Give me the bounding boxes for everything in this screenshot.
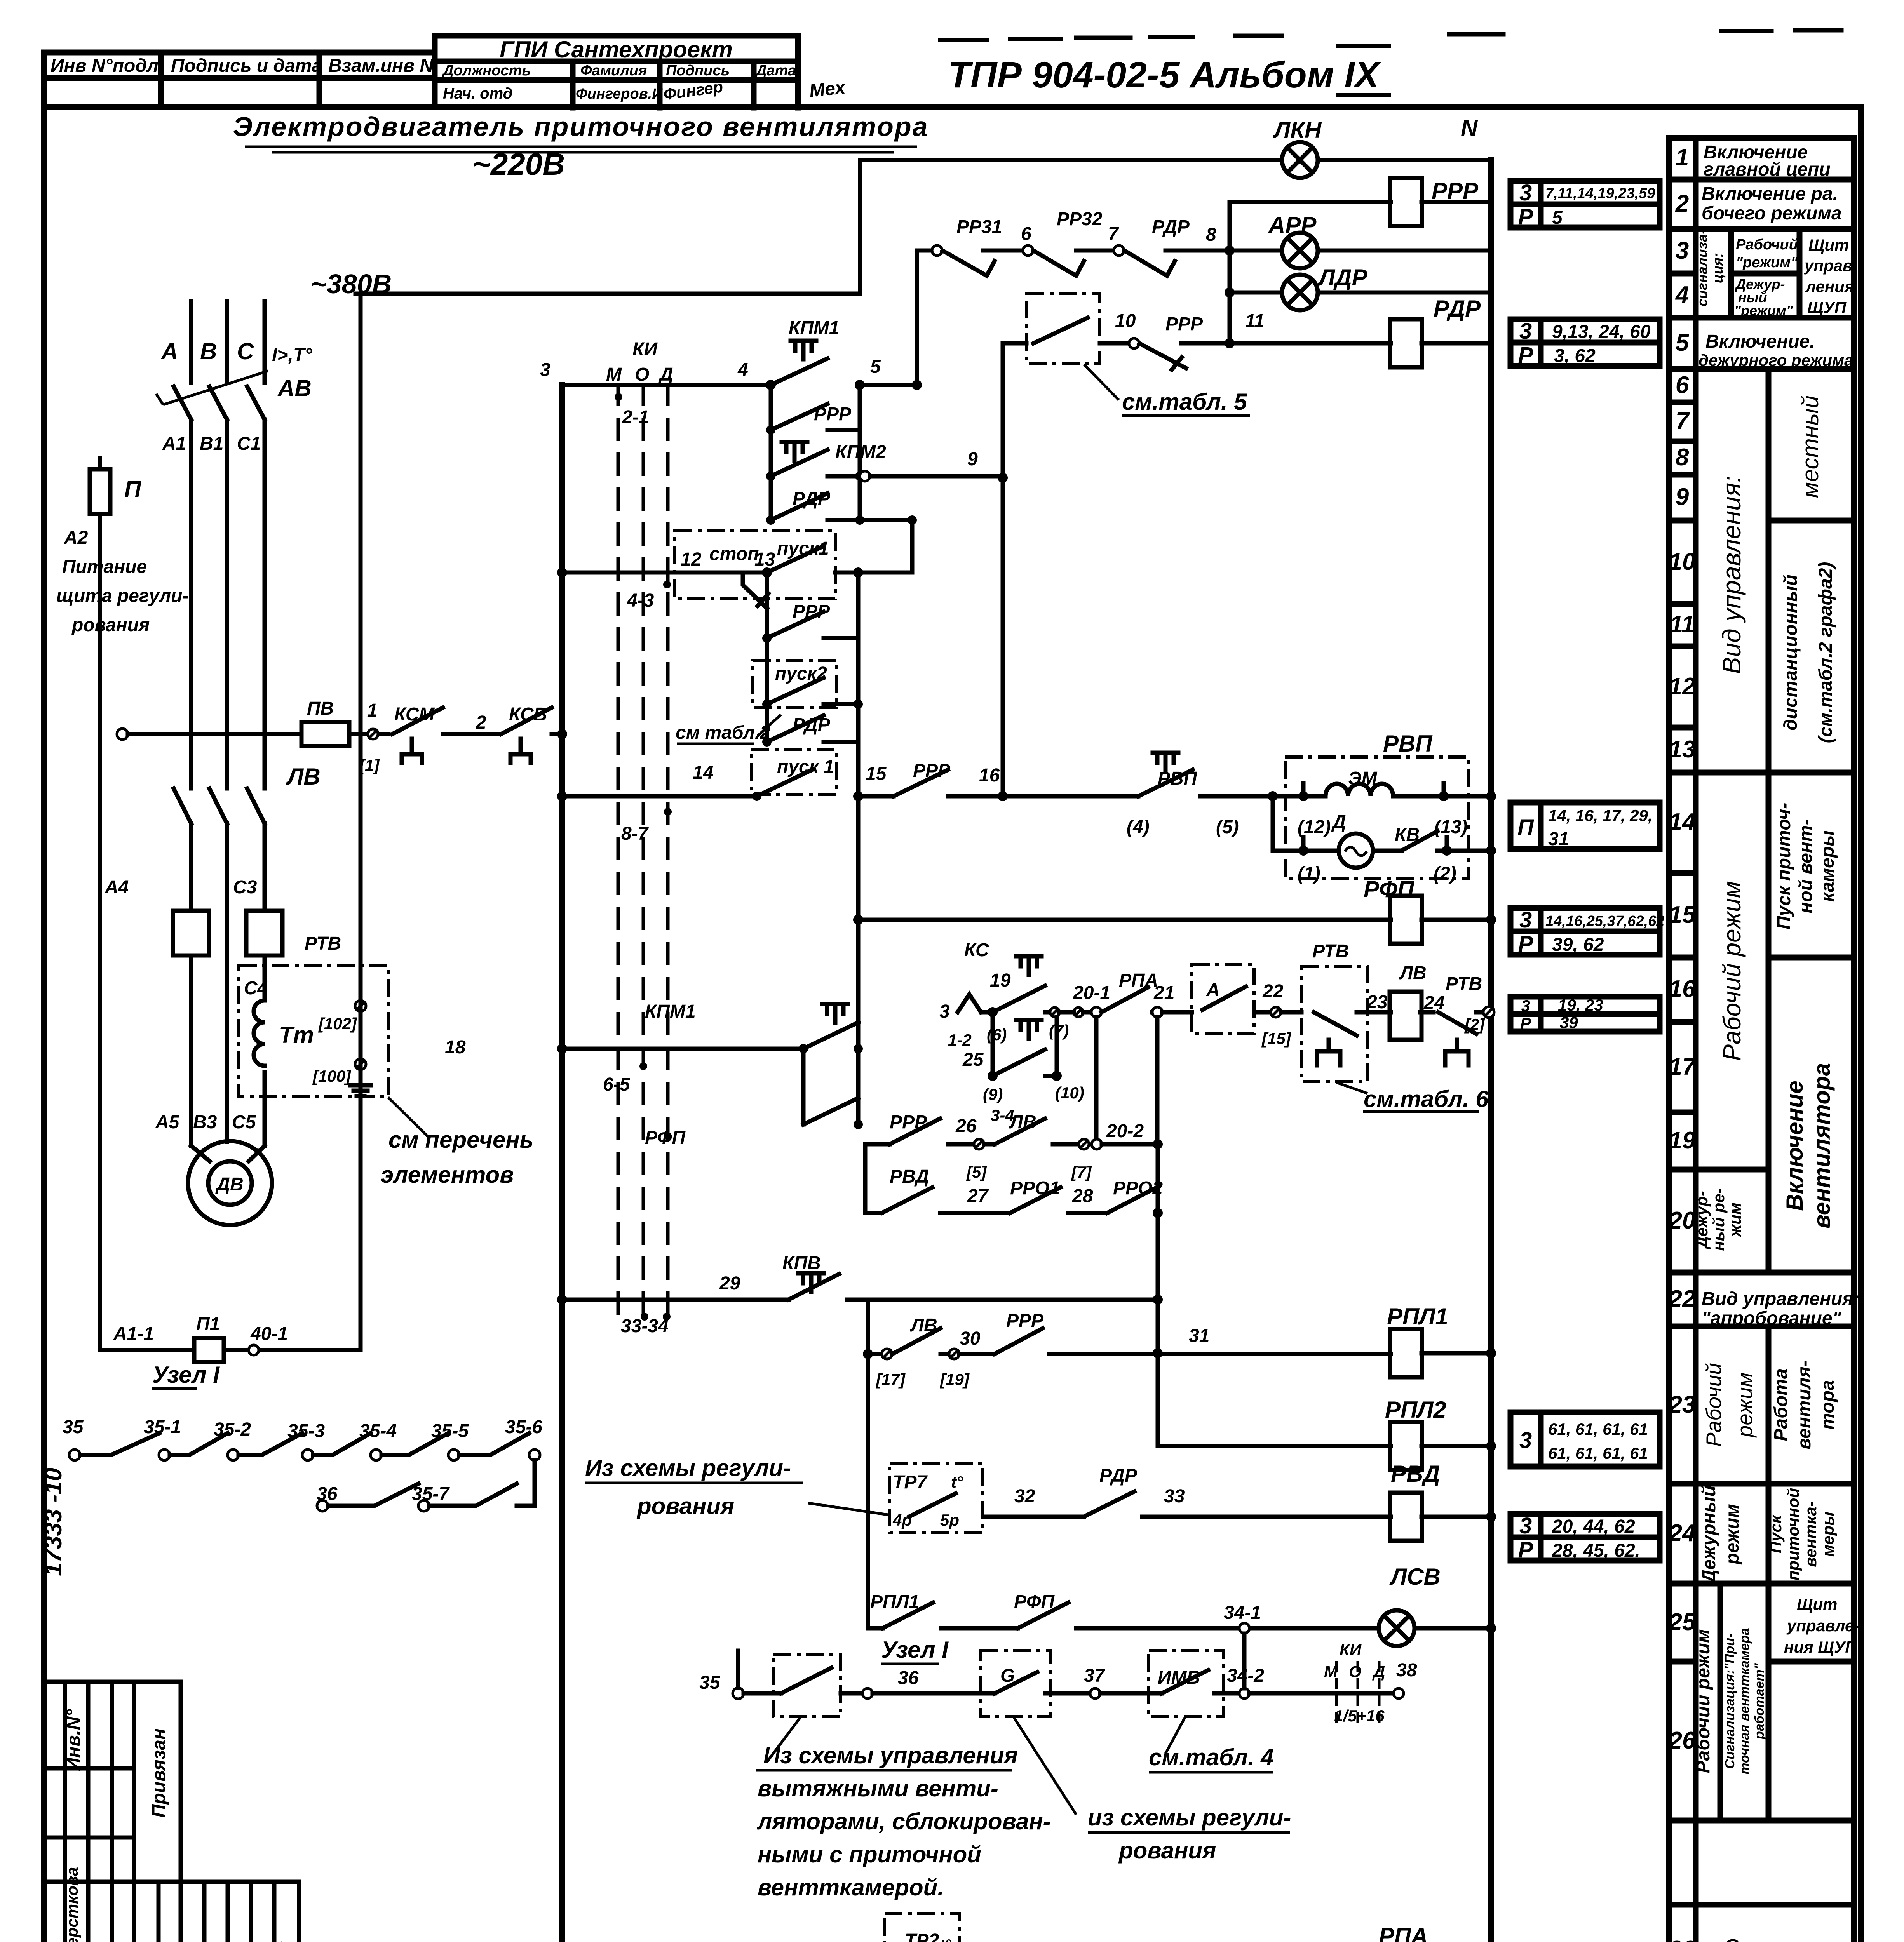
svg-text:3: 3: [1521, 997, 1530, 1015]
svg-text:38: 38: [1396, 1660, 1417, 1681]
svg-text:Р: Р: [1520, 1014, 1531, 1032]
svg-text:ния ЩУП: ния ЩУП: [1784, 1638, 1857, 1656]
svg-text:3, 62: 3, 62: [1554, 346, 1596, 366]
svg-text:С1: С1: [237, 433, 261, 454]
svg-text:РТВ: РТВ: [1446, 974, 1482, 994]
svg-text:работает": работает": [1752, 1663, 1767, 1740]
svg-text:[5]: [5]: [966, 1163, 987, 1181]
svg-text:t°: t°: [951, 1473, 963, 1491]
svg-text:4-3: 4-3: [627, 590, 654, 611]
svg-text:РПЛ1: РПЛ1: [1387, 1303, 1448, 1329]
svg-text:см перечень: см перечень: [388, 1127, 533, 1153]
svg-text:рования: рования: [1118, 1838, 1216, 1864]
svg-text:Вид управления:: Вид управления:: [1717, 475, 1746, 674]
svg-text:РРО1: РРО1: [1010, 1178, 1060, 1199]
svg-text:ЛСВ: ЛСВ: [1389, 1564, 1441, 1590]
svg-text:Должность: Должность: [442, 63, 531, 79]
svg-text:А4: А4: [105, 877, 129, 898]
svg-text:ИМВ: ИМВ: [1158, 1667, 1200, 1688]
svg-text:А1-1: А1-1: [113, 1324, 154, 1344]
svg-text:[2]: [2]: [1464, 1015, 1485, 1034]
svg-text:5: 5: [1552, 207, 1563, 228]
svg-text:(6): (6): [987, 1025, 1007, 1044]
svg-text:РРР: РРР: [1432, 178, 1479, 204]
svg-text:П: П: [1517, 815, 1534, 840]
svg-text:РРО2: РРО2: [1113, 1178, 1163, 1199]
svg-text:местный: местный: [1797, 395, 1823, 498]
svg-text:31: 31: [1189, 1326, 1209, 1346]
svg-text:А: А: [1206, 980, 1220, 1001]
svg-text:А2: А2: [64, 527, 88, 548]
svg-text:РДР: РДР: [1434, 296, 1481, 322]
svg-text:Д: Д: [1372, 1662, 1385, 1681]
svg-text:элементов: элементов: [381, 1162, 514, 1188]
svg-text:14: 14: [693, 762, 713, 783]
svg-text:см табл.2: см табл.2: [676, 722, 770, 743]
svg-text:РРР: РРР: [793, 601, 830, 622]
svg-text:РРР: РРР: [890, 1112, 927, 1133]
svg-text:А1: А1: [162, 433, 186, 454]
svg-text:РДР: РДР: [793, 715, 831, 735]
svg-text:4р: 4р: [892, 1511, 912, 1529]
svg-text:3: 3: [1519, 1513, 1532, 1538]
svg-text:5р: 5р: [940, 1511, 959, 1529]
svg-text:ПВ: ПВ: [307, 698, 334, 719]
svg-text:14,16,25,37,62,62: 14,16,25,37,62,62: [1545, 913, 1664, 929]
svg-text:12: 12: [1669, 673, 1696, 700]
svg-text:24: 24: [1423, 993, 1444, 1013]
svg-text:25: 25: [1669, 1609, 1696, 1636]
svg-text:сигнализа-: сигнализа-: [1694, 230, 1710, 306]
svg-text:~220В: ~220В: [472, 147, 565, 181]
svg-text:17: 17: [1669, 1053, 1697, 1080]
svg-text:(5): (5): [1216, 817, 1239, 837]
svg-text:А: А: [160, 338, 178, 364]
svg-text:О: О: [1349, 1662, 1362, 1681]
svg-text:Дежурный: Дежурный: [1699, 1485, 1719, 1585]
svg-text:Рабочий: Рабочий: [1702, 1363, 1726, 1447]
svg-text:дистанционный: дистанционный: [1780, 574, 1801, 731]
svg-text:КПМ1: КПМ1: [645, 1001, 696, 1022]
svg-text:ГПИ Сантехпроект: ГПИ Сантехпроект: [500, 37, 733, 63]
svg-text:3: 3: [1519, 318, 1532, 344]
svg-text:(7): (7): [1049, 1021, 1069, 1040]
svg-text:8-7: 8-7: [621, 823, 649, 844]
svg-text:РРР: РРР: [814, 404, 852, 425]
svg-text:5: 5: [870, 357, 881, 377]
svg-text:30: 30: [960, 1328, 981, 1349]
svg-text:С3: С3: [233, 877, 257, 898]
svg-text:1: 1: [367, 700, 378, 721]
svg-text:24: 24: [1669, 1520, 1696, 1547]
svg-text:РДР: РДР: [1099, 1465, 1138, 1486]
svg-text:[102]: [102]: [318, 1015, 357, 1033]
svg-text:пуск 1: пуск 1: [777, 757, 834, 777]
svg-text:35-6: 35-6: [505, 1417, 542, 1437]
svg-text:Н.контр. Хоперсткова: Н.контр. Хоперсткова: [63, 1867, 81, 1942]
svg-text:М: М: [1324, 1662, 1338, 1681]
svg-text:3: 3: [1519, 907, 1532, 933]
svg-text:31: 31: [1548, 829, 1569, 849]
svg-text:РВД: РВД: [1391, 1461, 1440, 1487]
svg-text:РРР: РРР: [1006, 1310, 1044, 1331]
svg-text:6: 6: [1021, 224, 1031, 244]
svg-text:Электродвигатель приточного: Электродвигатель приточного вентилятора: [233, 111, 928, 142]
svg-text:ДВ: ДВ: [215, 1174, 243, 1195]
svg-text:(13): (13): [1434, 817, 1467, 837]
svg-text:t°: t°: [939, 1936, 952, 1942]
svg-text:8: 8: [1206, 224, 1216, 245]
svg-text:4: 4: [737, 360, 748, 380]
svg-text:23: 23: [1366, 992, 1388, 1013]
svg-text:С5: С5: [232, 1112, 256, 1133]
svg-text:точная вентткамера: точная вентткамера: [1737, 1628, 1752, 1775]
svg-text:"апробование": "апробование": [1702, 1308, 1842, 1329]
svg-text:10: 10: [1669, 548, 1696, 575]
svg-text:Р: Р: [1518, 931, 1533, 957]
svg-text:15: 15: [866, 764, 887, 784]
svg-text:Взам.инв N°: Взам.инв N°: [328, 56, 441, 76]
svg-text:7: 7: [1108, 224, 1119, 244]
svg-text:3: 3: [1676, 237, 1689, 264]
svg-text:[100]: [100]: [312, 1067, 352, 1085]
svg-text:РПА: РПА: [1119, 970, 1158, 991]
svg-text:РДР: РДР: [793, 489, 831, 509]
svg-text:3: 3: [540, 360, 550, 380]
svg-text:ЛКН: ЛКН: [1273, 117, 1322, 143]
svg-text:В3: В3: [193, 1112, 217, 1133]
svg-text:(4): (4): [1127, 817, 1150, 837]
svg-text:режим: режим: [1722, 1504, 1743, 1565]
svg-text:7: 7: [1676, 408, 1690, 435]
svg-text:37: 37: [1084, 1665, 1106, 1686]
svg-text:Вид управления:: Вид управления:: [1702, 1289, 1860, 1309]
svg-text:11: 11: [1245, 311, 1265, 331]
svg-text:Рабочий режим: Рабочий режим: [1693, 1629, 1714, 1773]
svg-text:23: 23: [1669, 1391, 1696, 1418]
svg-text:ный ре-: ный ре-: [1709, 1188, 1728, 1251]
svg-text:"режим": "режим": [1736, 254, 1798, 271]
svg-text:ЛВ: ЛВ: [1009, 1112, 1036, 1133]
svg-text:РВП: РВП: [1383, 731, 1433, 757]
svg-text:Подпись: Подпись: [666, 63, 730, 79]
svg-text:ЛВ: ЛВ: [910, 1315, 937, 1336]
svg-text:Фингеров.И: Фингеров.И: [576, 86, 663, 102]
svg-text:27: 27: [967, 1186, 989, 1206]
svg-text:РФП: РФП: [645, 1128, 686, 1148]
svg-text:КПВ: КПВ: [782, 1253, 821, 1274]
svg-text:Мех: Мех: [808, 77, 847, 101]
svg-text:19: 19: [1669, 1127, 1696, 1154]
svg-text:3: 3: [1519, 1428, 1532, 1453]
svg-text:8: 8: [1676, 444, 1689, 471]
svg-text:12: 12: [681, 549, 702, 570]
svg-text:Включение ра.: Включение ра.: [1702, 184, 1838, 204]
svg-text:вытяжными венти-: вытяжными венти-: [758, 1775, 998, 1801]
svg-text:(10): (10): [1055, 1084, 1084, 1102]
svg-text:АРР: АРР: [1268, 212, 1317, 238]
svg-text:рования: рования: [71, 615, 150, 635]
svg-text:ными с приточной: ными с приточной: [758, 1841, 981, 1867]
svg-text:35: 35: [63, 1417, 84, 1437]
svg-text:16: 16: [1669, 976, 1696, 1002]
svg-text:КПМ2: КПМ2: [835, 442, 886, 463]
svg-text:щита регули-: щита регули-: [56, 586, 188, 606]
svg-text:"режим": "режим": [1734, 303, 1793, 318]
svg-text:Р: Р: [1518, 1537, 1533, 1563]
svg-text:15: 15: [1669, 901, 1696, 928]
svg-text:Р: Р: [1518, 204, 1533, 230]
svg-text:1-2: 1-2: [948, 1031, 972, 1049]
svg-text:14, 16, 17, 29,: 14, 16, 17, 29,: [1548, 806, 1653, 825]
svg-text:Р: Р: [1518, 343, 1533, 368]
svg-text:Д: Д: [1331, 812, 1346, 832]
svg-text:20, 44, 62: 20, 44, 62: [1552, 1516, 1635, 1537]
svg-text:вентткамерой.: вентткамерой.: [758, 1874, 944, 1900]
svg-text:35-5: 35-5: [431, 1421, 469, 1441]
svg-text:20-1: 20-1: [1073, 983, 1110, 1003]
svg-text:34-1: 34-1: [1224, 1603, 1261, 1623]
svg-text:жим: жим: [1726, 1202, 1744, 1237]
svg-text:18: 18: [445, 1037, 466, 1058]
svg-text:Питание: Питание: [62, 557, 147, 577]
svg-text:П: П: [124, 476, 142, 502]
svg-text:Узел I: Узел I: [152, 1362, 220, 1388]
svg-text:рования: рования: [636, 1493, 734, 1519]
svg-text:РТВ: РТВ: [305, 933, 341, 954]
svg-text:Пуск приточ-: Пуск приточ-: [1774, 803, 1794, 929]
svg-text:Дежур-: Дежур-: [1693, 1191, 1711, 1249]
svg-text:1/5+16: 1/5+16: [1334, 1707, 1385, 1725]
svg-text:14: 14: [1669, 809, 1696, 835]
svg-text:С: С: [237, 338, 254, 364]
svg-text:13: 13: [1669, 736, 1696, 763]
svg-text:39: 39: [1560, 1013, 1578, 1032]
svg-text:7,11,14,19,23,59: 7,11,14,19,23,59: [1545, 185, 1655, 202]
svg-text:М: М: [606, 364, 622, 385]
svg-text:(см.табл.2 графа2): (см.табл.2 графа2): [1815, 562, 1836, 743]
svg-text:2-1: 2-1: [622, 407, 649, 428]
svg-text:из схемы регули-: из схемы регули-: [1088, 1805, 1291, 1831]
svg-text:Тт: Тт: [279, 1022, 314, 1048]
svg-text:В: В: [200, 338, 217, 364]
svg-text:Инв.N°: Инв.N°: [63, 1709, 84, 1771]
svg-text:[17]: [17]: [875, 1370, 906, 1389]
svg-text:28: 28: [1072, 1186, 1093, 1206]
svg-text:3: 3: [1519, 180, 1532, 205]
svg-text:6: 6: [1676, 372, 1689, 398]
svg-text:ция:: ция:: [1710, 253, 1726, 283]
svg-text:Подпись и дата: Подпись и дата: [171, 56, 322, 76]
svg-text:2: 2: [476, 712, 486, 733]
svg-text:Включение: Включение: [1782, 1081, 1808, 1211]
svg-text:ЭМ: ЭМ: [1348, 768, 1378, 789]
svg-text:дежурного режима: дежурного режима: [1698, 351, 1853, 369]
svg-text:19, 23: 19, 23: [1558, 996, 1603, 1014]
svg-text:режим: режим: [1733, 1373, 1757, 1438]
svg-text:32: 32: [1014, 1486, 1035, 1507]
svg-text:ТР7: ТР7: [893, 1472, 928, 1493]
svg-text:(9): (9): [983, 1085, 1003, 1103]
svg-text:бочего режима: бочего режима: [1702, 203, 1842, 224]
svg-text:21: 21: [1153, 983, 1174, 1003]
svg-text:вентилятора: вентилятора: [1809, 1063, 1835, 1229]
svg-text:(12): (12): [1298, 817, 1331, 837]
svg-text:20-2: 20-2: [1106, 1121, 1144, 1142]
svg-text:РПЛ2: РПЛ2: [1385, 1397, 1446, 1423]
svg-text:(1): (1): [1298, 863, 1320, 884]
svg-text:9: 9: [1676, 484, 1689, 510]
svg-text:Рабочий: Рабочий: [1736, 237, 1798, 253]
svg-text:Рабочий режим: Рабочий режим: [1718, 881, 1746, 1061]
svg-text:приточной: приточной: [1784, 1488, 1802, 1581]
svg-text:КИ: КИ: [1340, 1641, 1362, 1659]
svg-text:РРР: РРР: [1165, 314, 1203, 334]
svg-text:Д: Д: [658, 364, 673, 385]
svg-text:меры: меры: [1819, 1512, 1837, 1557]
svg-text:ной вент-: ной вент-: [1796, 819, 1816, 913]
svg-text:1: 1: [1676, 144, 1689, 171]
svg-text:ляторами, сблокирован-: ляторами, сблокирован-: [756, 1808, 1051, 1834]
svg-text:П1: П1: [196, 1314, 220, 1335]
svg-text:РВД: РВД: [890, 1166, 929, 1187]
svg-text:(2): (2): [1434, 863, 1456, 884]
svg-text:камеры: камеры: [1817, 830, 1838, 902]
svg-text:Работа: Работа: [1771, 1368, 1791, 1441]
svg-text:Нач. отд: Нач. отд: [443, 85, 512, 102]
svg-text:вентиля-: вентиля-: [1794, 1360, 1815, 1450]
svg-text:стоп: стоп: [709, 544, 759, 564]
svg-text:39, 62: 39, 62: [1552, 934, 1604, 955]
svg-text:управ-: управ-: [1804, 256, 1858, 275]
svg-text:Пуск: Пуск: [1766, 1514, 1785, 1553]
svg-text:пуск2: пуск2: [775, 663, 827, 684]
svg-text:[15]: [15]: [1261, 1029, 1292, 1048]
svg-text:[7]: [7]: [1071, 1163, 1092, 1181]
svg-text:РПЛ1: РПЛ1: [870, 1592, 919, 1612]
svg-text:КПМ1: КПМ1: [789, 318, 840, 338]
svg-text:13: 13: [754, 549, 775, 570]
svg-text:29: 29: [719, 1273, 740, 1294]
svg-text:4: 4: [1675, 282, 1689, 308]
svg-text:Из схемы управления: Из схемы управления: [763, 1742, 1018, 1768]
svg-text:26: 26: [1669, 1727, 1696, 1754]
svg-text:Включение.: Включение.: [1705, 331, 1815, 352]
svg-text:36: 36: [898, 1668, 919, 1688]
svg-text:РТВ: РТВ: [1312, 941, 1349, 962]
svg-text:ЩУП: ЩУП: [1807, 298, 1847, 317]
svg-text:35-4: 35-4: [359, 1421, 397, 1441]
svg-text:35-3: 35-3: [287, 1421, 325, 1441]
svg-text:тора: тора: [1817, 1380, 1838, 1429]
svg-text:[19]: [19]: [939, 1370, 970, 1389]
svg-text:ЛВ: ЛВ: [286, 764, 321, 790]
svg-text:36: 36: [317, 1484, 338, 1504]
svg-text:28: 28: [1669, 1936, 1696, 1942]
svg-text:ЛВ: ЛВ: [1399, 963, 1427, 983]
svg-text:61, 61, 61, 61: 61, 61, 61, 61: [1548, 1444, 1648, 1462]
svg-text:КИ: КИ: [632, 339, 658, 360]
svg-text:Защита: Защита: [1723, 1934, 1828, 1942]
svg-text:РПА: РПА: [1379, 1923, 1428, 1942]
svg-text:35-7: 35-7: [412, 1484, 450, 1504]
svg-text:17333 -10: 17333 -10: [40, 1468, 67, 1576]
svg-text:Инв N°подл.: Инв N°подл.: [51, 56, 164, 76]
svg-text:ТР2: ТР2: [905, 1930, 939, 1942]
svg-text:22: 22: [1669, 1286, 1696, 1312]
svg-text:АВ: АВ: [277, 375, 312, 401]
svg-text:В1: В1: [200, 433, 223, 454]
svg-text:G: G: [1000, 1665, 1015, 1686]
svg-text:КВ: КВ: [1395, 825, 1420, 845]
svg-text:25: 25: [962, 1049, 984, 1070]
svg-text:О: О: [635, 364, 649, 385]
svg-text:33: 33: [1164, 1486, 1185, 1507]
svg-text:20: 20: [1669, 1207, 1696, 1234]
svg-text:61, 61, 61, 61: 61, 61, 61, 61: [1548, 1420, 1648, 1438]
svg-text:управле-: управле-: [1786, 1617, 1859, 1635]
svg-text:40-1: 40-1: [250, 1324, 288, 1344]
svg-text:РФП: РФП: [1014, 1592, 1055, 1612]
svg-text:9,13, 24, 60: 9,13, 24, 60: [1552, 322, 1651, 342]
svg-text:РРР: РРР: [913, 760, 951, 781]
svg-text:ления: ления: [1805, 277, 1854, 296]
svg-text:Привязан: Привязан: [149, 1728, 169, 1818]
svg-text:РР32: РР32: [1057, 209, 1103, 230]
svg-text:16: 16: [979, 765, 1000, 786]
svg-text:главной цепи: главной цепи: [1704, 159, 1831, 180]
svg-text:вентка-: вентка-: [1801, 1501, 1820, 1567]
svg-text:35-2: 35-2: [214, 1419, 251, 1440]
svg-text:А5: А5: [155, 1112, 180, 1133]
svg-text:Фамилия: Фамилия: [580, 63, 647, 79]
svg-text:КС: КС: [964, 940, 989, 961]
svg-text:Сигнализация:"При-: Сигнализация:"При-: [1723, 1633, 1737, 1769]
svg-text:РФП: РФП: [1364, 876, 1415, 902]
svg-text:РР31: РР31: [956, 217, 1002, 237]
svg-text:см.табл. 5: см.табл. 5: [1122, 389, 1247, 415]
svg-text:см.табл. 6: см.табл. 6: [1364, 1086, 1489, 1112]
svg-text:28, 45, 62.: 28, 45, 62.: [1552, 1540, 1640, 1561]
svg-text:11: 11: [1670, 611, 1695, 638]
svg-text:РДР: РДР: [1152, 217, 1190, 237]
svg-text:6-5: 6-5: [603, 1074, 631, 1095]
svg-text:26: 26: [955, 1116, 977, 1136]
svg-text:пуск1: пуск1: [777, 538, 829, 559]
svg-text:19: 19: [990, 970, 1011, 991]
svg-text:35: 35: [699, 1672, 721, 1693]
svg-text:2: 2: [1675, 190, 1689, 217]
svg-text:22: 22: [1262, 981, 1284, 1002]
svg-text:ТПР 904-02-5 Альбом IX: ТПР 904-02-5 Альбом IX: [948, 54, 1381, 96]
svg-text:9: 9: [967, 449, 978, 470]
svg-text:3: 3: [939, 1001, 950, 1022]
svg-text:ЛДР: ЛДР: [1317, 265, 1368, 291]
svg-text:Из схемы регули-: Из схемы регули-: [585, 1455, 791, 1481]
svg-text:Дата: Дата: [755, 63, 796, 79]
svg-text:10: 10: [1115, 311, 1136, 331]
svg-text:35-1: 35-1: [144, 1417, 181, 1437]
svg-text:N: N: [1461, 115, 1478, 141]
svg-text:Щит: Щит: [1808, 236, 1849, 254]
svg-text:Щит: Щит: [1797, 1595, 1838, 1613]
svg-text:I>,T°: I>,T°: [272, 345, 312, 365]
svg-text:Узел I: Узел I: [881, 1637, 949, 1663]
svg-text:5: 5: [1676, 329, 1690, 356]
